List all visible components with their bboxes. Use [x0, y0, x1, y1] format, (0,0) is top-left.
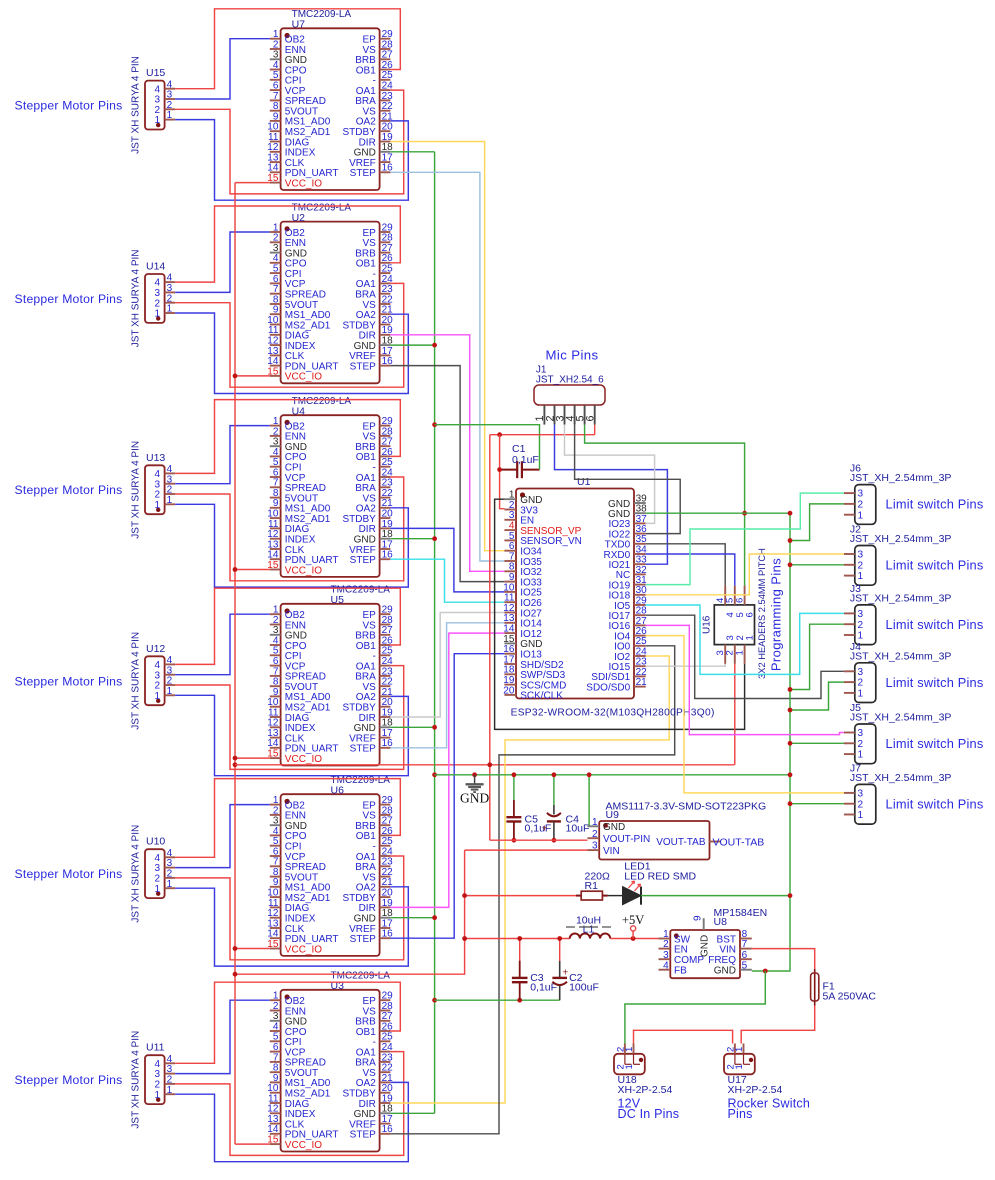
U5 pin 3 GND	[270, 634, 281, 636]
junction GND rail	[432, 772, 437, 777]
U1 pin 8 IO32	[504, 570, 516, 572]
svg-text:5A 250VAC: 5A 250VAC	[823, 991, 877, 1003]
junction green bus / rail	[788, 772, 793, 777]
svg-text:JST XH SURYA 4 PIN: JST XH SURYA 4 PIN	[131, 825, 142, 923]
svg-text:Limit switch Pins: Limit switch Pins	[886, 558, 984, 573]
U16 pin 4	[724, 586, 726, 605]
U5 pin 14 PDN_UART	[270, 747, 281, 749]
U2 pin 5 CPI	[270, 272, 281, 274]
J4 pin 1	[844, 692, 855, 694]
junction 3V3 rail tap	[233, 762, 238, 767]
junction VCC_IO U5	[233, 756, 238, 761]
U3 pin 22 VS	[380, 1071, 391, 1073]
U4 pin 17 VREF	[380, 548, 391, 550]
U5 pin 2 ENN	[270, 624, 281, 626]
wire U4 motor OB2 (blue)	[175, 426, 270, 484]
U3 pin 1 OB2	[270, 999, 281, 1001]
junction R1 +5V	[462, 893, 467, 898]
U3 pin 18 GND	[380, 1112, 391, 1114]
U13 pin 2	[165, 493, 176, 495]
U8 pin 9 GND top	[703, 918, 705, 930]
U4 pin 28 VS	[380, 435, 391, 437]
junction 5V rail	[462, 936, 467, 941]
U7 pin 9 MS1_AD0	[270, 120, 281, 122]
U8 pin 3 COMP	[659, 958, 671, 960]
junction J2 GND	[788, 562, 793, 567]
3V3 red bus left	[234, 183, 236, 1145]
wire U4 DIR to ESP32 IO (pin 10)	[390, 528, 504, 592]
driver IC U5 TMC2209-LA	[281, 604, 380, 766]
U1 pin 16 IO13	[504, 653, 516, 655]
junction C5 top	[512, 772, 517, 777]
wire IO18 to J2 pin3 (yellow)	[646, 554, 844, 595]
U11 pin 4	[165, 1062, 176, 1064]
U7 pin 19 DIR	[380, 141, 391, 143]
U7 pin 26 OB1	[380, 69, 391, 71]
wire J4 pin2 to GND bus (green)	[790, 682, 844, 710]
U6 pin 2 ENN	[270, 814, 281, 816]
svg-text:3: 3	[663, 950, 669, 961]
svg-text:JST_XH_2.54mm_3P: JST_XH_2.54mm_3P	[850, 650, 952, 662]
U4 pin 14 PDN_UART	[270, 558, 281, 560]
U6 pin 23 BRA	[380, 865, 391, 867]
U1 pin 21 SDO/SD0	[634, 686, 646, 688]
junction GND U4	[432, 536, 437, 541]
U3 pin 24 OA1	[380, 1051, 391, 1053]
U15 pin 2	[165, 108, 176, 110]
U1 pin 6 IO34	[504, 550, 516, 552]
svg-text:STEP: STEP	[350, 555, 376, 566]
U6 pin 16 STEP	[380, 937, 391, 939]
svg-text:STEP: STEP	[350, 744, 376, 755]
svg-text:XH-2P-2.54: XH-2P-2.54	[728, 1084, 783, 1096]
wire J1 pin3 to IO23 (light gray)	[565, 425, 655, 524]
svg-text:VCC_IO: VCC_IO	[285, 372, 322, 383]
U7 pin 1 OB2	[270, 38, 281, 40]
svg-text:JST_XH_2.54mm_3P: JST_XH_2.54mm_3P	[850, 772, 952, 784]
svg-text:6: 6	[745, 612, 756, 617]
driver IC U7 TMC2209-LA	[281, 28, 380, 190]
U6 pin 29 EP	[380, 804, 391, 806]
J1 pin 2	[554, 405, 556, 425]
wire U2 GND to bus (green)	[390, 344, 434, 346]
U4 pin 22 VS	[380, 497, 391, 499]
wire 5V to VCC_IO bus (red)	[235, 939, 465, 975]
junction U9 GND	[587, 772, 592, 777]
svg-text:JST_XH_2.54mm_3P: JST_XH_2.54mm_3P	[850, 472, 952, 484]
U3 pin 23 BRA	[380, 1061, 391, 1063]
svg-text:GND: GND	[460, 791, 489, 806]
junction C4 bottom	[552, 838, 557, 843]
U6 pin 28 VS	[380, 814, 391, 816]
svg-text:1: 1	[167, 304, 173, 315]
svg-text:1: 1	[155, 115, 161, 126]
U3 pin 28 VS	[380, 1010, 391, 1012]
svg-text:JST XH SURYA 4 PIN: JST XH SURYA 4 PIN	[131, 249, 142, 347]
junction GND C1 branch	[432, 422, 437, 427]
U2 pin 16 STEP	[380, 365, 391, 367]
capacitor C1 0,1uF	[500, 469, 518, 471]
svg-text:XH-2P-2.54: XH-2P-2.54	[618, 1084, 673, 1096]
U3 pin 27 BRB	[380, 1020, 391, 1022]
U7 pin 20 STDBY	[380, 130, 391, 132]
svg-text:100uF: 100uF	[569, 982, 599, 994]
connector U10 JST XH SURYA 4 PIN	[145, 849, 165, 898]
U4 pin 10 MS2_AD1	[270, 517, 281, 519]
connector U15 JST XH SURYA 4 PIN	[145, 81, 165, 130]
wire R1 to LED1 (black)	[608, 895, 623, 897]
wire U6 motor OB1 (red)	[175, 779, 400, 858]
svg-text:2: 2	[858, 620, 864, 631]
U7 pin 25 -	[380, 79, 391, 81]
wire +5V rail (red)	[465, 938, 570, 940]
U2 pin 17 VREF	[380, 354, 391, 356]
junction GND U2	[432, 343, 437, 348]
wire U3 motor OA2 (blue)	[175, 1082, 408, 1161]
U1 pin 24 IO2	[634, 655, 646, 657]
U4 pin 7 SPREAD	[270, 486, 281, 488]
svg-text:JST XH SURYA 4 PIN: JST XH SURYA 4 PIN	[131, 56, 142, 154]
U6 pin 25 -	[380, 845, 391, 847]
wire U4 motor OA1 (red)	[175, 477, 404, 581]
svg-text:U15: U15	[146, 67, 165, 79]
svg-text:1: 1	[167, 1085, 173, 1096]
svg-text:DC In Pins: DC In Pins	[618, 1107, 680, 1121]
U7 pin 5 CPI	[270, 79, 281, 81]
wire U8 VIN from fuse (red)	[752, 949, 815, 973]
svg-text:2: 2	[858, 560, 864, 571]
svg-text:+5V: +5V	[622, 913, 644, 927]
U7 pin 13 CLK	[270, 161, 281, 163]
U1 pin 35 TXD0	[634, 543, 646, 545]
J7 pin 2	[844, 803, 855, 805]
U12 pin 3	[165, 674, 176, 676]
svg-text:U7: U7	[292, 19, 306, 31]
junction 3V3 branch	[497, 432, 502, 437]
U2 pin 22 VS	[380, 303, 391, 305]
wire C2/C3 ground to GND bus (green)	[435, 999, 560, 1001]
svg-text:2: 2	[858, 799, 864, 810]
svg-text:+: +	[562, 967, 568, 979]
svg-text:STEP: STEP	[350, 934, 376, 945]
U6 pin 3 GND	[270, 824, 281, 826]
U7 pin 10 MS2_AD1	[270, 130, 281, 132]
svg-text:VOUT-TAB: VOUT-TAB	[656, 837, 706, 848]
U5 pin 19 DIR	[380, 716, 391, 718]
svg-text:0,1uF: 0,1uF	[512, 454, 539, 466]
U1 pin 32 NC	[634, 573, 646, 575]
U1 pin 28 IO17	[634, 614, 646, 616]
U3 pin 17 VREF	[380, 1123, 391, 1125]
svg-text:3: 3	[858, 789, 864, 800]
svg-text:U13: U13	[146, 452, 165, 464]
U7 pin 16 STEP	[380, 171, 391, 173]
U5 pin 6 VCP	[270, 665, 281, 667]
wire LED1 to GND bus (green)	[641, 895, 790, 897]
svg-text:JST_XH_2.54mm_3P: JST_XH_2.54mm_3P	[850, 592, 952, 604]
J3 pin 2	[844, 623, 855, 625]
U5 pin 8 5VOUT	[270, 685, 281, 687]
svg-text:Limit switch Pins: Limit switch Pins	[886, 736, 984, 751]
svg-text:1: 1	[155, 500, 161, 511]
svg-text:U5: U5	[331, 594, 345, 606]
wire U7 motor OB2 (blue)	[175, 39, 270, 99]
U1 pin 18 SWP/SD3	[504, 673, 516, 675]
U6 pin 18 GND	[380, 917, 391, 919]
svg-text:1: 1	[858, 510, 864, 521]
junction green bus top	[788, 511, 793, 516]
svg-text:Stepper Motor Pins: Stepper Motor Pins	[15, 674, 123, 688]
U6 pin 12 INDEX	[270, 917, 281, 919]
svg-text:FREQ: FREQ	[708, 955, 736, 966]
junction VCC_IO U2	[233, 374, 238, 379]
U1 pin 9 IO33	[504, 581, 516, 583]
svg-text:1: 1	[167, 110, 173, 121]
U2 pin 26 OB1	[380, 262, 391, 264]
U5 pin 26 OB1	[380, 644, 391, 646]
connector U17 XH-2P-2.54	[724, 1054, 755, 1075]
wire RXD0 to U16 pin5 (blue)	[646, 554, 735, 586]
connector U13 JST XH SURYA 4 PIN	[145, 465, 165, 514]
junction C5 bottom	[512, 838, 517, 843]
svg-text:1: 1	[155, 309, 161, 320]
svg-text:5: 5	[742, 960, 748, 971]
svg-text:1: 1	[734, 1064, 745, 1069]
U15 pin 1	[165, 119, 176, 121]
U2 pin 14 PDN_UART	[270, 365, 281, 367]
wire U3 motor OA1 (red)	[175, 1052, 404, 1156]
svg-text:1: 1	[745, 635, 756, 640]
U7 pin 18 GND	[380, 151, 391, 153]
U6 pin 21 OA2	[380, 886, 391, 888]
U2 pin 9 MS1_AD0	[270, 313, 281, 315]
U1 pin 31 IO19	[634, 584, 646, 586]
connector J1 JST_XH2.54_6 mic pins	[534, 385, 605, 405]
U1 pin 10 IO25	[504, 591, 516, 593]
svg-text:10uF: 10uF	[566, 823, 590, 835]
connector J4 JST_XH_2.54mm_3P limit switch	[855, 663, 876, 703]
U6 pin 6 VCP	[270, 855, 281, 857]
svg-text:SDO/SD0: SDO/SD0	[586, 682, 630, 693]
svg-text:3: 3	[858, 609, 864, 620]
U2 pin 19 DIR	[380, 334, 391, 336]
svg-text:Stepper Motor Pins: Stepper Motor Pins	[15, 99, 123, 113]
wire U4 STEP to ESP32 IO (pin 11)	[390, 559, 504, 602]
U6 pin 8 5VOUT	[270, 876, 281, 878]
U3 pin 25 -	[380, 1040, 391, 1042]
J1 pin 4	[574, 405, 576, 425]
svg-text:U16: U16	[702, 615, 713, 634]
svg-text:9: 9	[693, 915, 704, 921]
J4 pin 3	[844, 670, 855, 672]
svg-text:Limit switch Pins: Limit switch Pins	[886, 617, 984, 632]
wire U2 motor OA2 (blue)	[175, 313, 408, 394]
U7 pin 27 BRB	[380, 58, 391, 60]
wire U4 GND to bus (green)	[390, 538, 434, 540]
junction 3V3 rail	[487, 762, 492, 767]
U8 pin 2 EN	[659, 948, 671, 950]
svg-text:VCC_IO: VCC_IO	[285, 1140, 322, 1151]
U3 pin 20 STDBY	[380, 1092, 391, 1094]
svg-text:2: 2	[663, 939, 669, 950]
wire U5 motor OB2 (blue)	[175, 614, 270, 675]
connector J2 JST_XH_2.54mm_3P limit switch	[855, 546, 876, 586]
junction GND capacitors branch	[432, 998, 437, 1003]
U5 pin 13 CLK	[270, 737, 281, 739]
wire U3 motor OB1 (red)	[175, 982, 400, 1063]
U5 pin 24 OA1	[380, 665, 391, 667]
U4 pin 8 5VOUT	[270, 497, 281, 499]
svg-text:U12: U12	[146, 643, 165, 655]
U2 pin 20 STDBY	[380, 324, 391, 326]
U2 pin 7 SPREAD	[270, 293, 281, 295]
U5 pin 5 CPI	[270, 654, 281, 656]
svg-text:JST_XH_2.54mm_3P: JST_XH_2.54mm_3P	[850, 712, 952, 724]
U6 pin 20 STDBY	[380, 896, 391, 898]
svg-text:U4: U4	[292, 406, 306, 418]
U5 pin 9 MS1_AD0	[270, 695, 281, 697]
wire U4 VCC_IO to 3V3 bus (red)	[235, 569, 270, 571]
U2 pin 10 MS2_AD1	[270, 324, 281, 326]
U5 pin 23 BRA	[380, 675, 391, 677]
U7 pin 12 INDEX	[270, 151, 281, 153]
wire U6 GND to bus (green)	[390, 917, 434, 919]
U8 pin 5 GND	[740, 969, 752, 971]
svg-text:U11: U11	[146, 1042, 165, 1054]
U5 pin 17 VREF	[380, 737, 391, 739]
U18 pin 1	[633, 1044, 635, 1054]
svg-text:JST XH SURYA 4 PIN: JST XH SURYA 4 PIN	[131, 441, 142, 539]
wire U6 STEP to ESP32 IO (pin 16)	[390, 654, 504, 939]
U4 pin 6 VCP	[270, 476, 281, 478]
wire U5 motor OB1 (red)	[175, 588, 400, 664]
U3 pin 14 PDN_UART	[270, 1133, 281, 1135]
U1 pin 38 GND	[634, 512, 646, 514]
U3 pin 4 CPO	[270, 1030, 281, 1032]
svg-text:4: 4	[663, 960, 669, 971]
U1 pin 5 SENSOR_VN	[504, 539, 516, 541]
U2 pin 6 VCP	[270, 282, 281, 284]
svg-text:Limit switch Pins: Limit switch Pins	[886, 796, 984, 811]
U1 pin 12 IO27	[504, 612, 516, 614]
wire U4 motor OB1 (red)	[175, 400, 400, 474]
junction VCC_IO U6	[233, 946, 238, 951]
svg-text:EN: EN	[674, 944, 688, 955]
U11 pin 1	[165, 1093, 176, 1095]
svg-text:Limit switch Pins: Limit switch Pins	[886, 675, 984, 690]
junction green U8 GND	[763, 969, 768, 974]
svg-text:U14: U14	[146, 261, 165, 273]
svg-text:U10: U10	[146, 836, 165, 848]
J1 pin 1	[543, 405, 545, 425]
junction J7 GND	[788, 801, 793, 806]
junction C3 ground	[517, 998, 522, 1003]
U1 pin 26 IO4	[634, 635, 646, 637]
U4 pin 12 INDEX	[270, 538, 281, 540]
U6 pin 1 OB2	[270, 804, 281, 806]
capacitor C5 0,1uF	[513, 775, 515, 800]
U4 pin 24 OA1	[380, 476, 391, 478]
J3 pin 1	[844, 634, 855, 636]
J4 pin 2	[844, 681, 855, 683]
J5 pin 1	[844, 753, 855, 755]
svg-text:1: 1	[155, 884, 161, 895]
U1 pin 14 IO12	[504, 632, 516, 634]
U6 pin 5 CPI	[270, 845, 281, 847]
svg-text:Stepper Motor Pins: Stepper Motor Pins	[15, 867, 123, 881]
svg-text:21: 21	[636, 677, 648, 688]
svg-text:1: 1	[858, 571, 864, 582]
U3 pin 3 GND	[270, 1020, 281, 1022]
svg-text:VOUT-PIN: VOUT-PIN	[603, 834, 650, 845]
U5 pin 25 -	[380, 654, 391, 656]
U7 pin 11 DIAG	[270, 141, 281, 143]
svg-text:Limit switch Pins: Limit switch Pins	[886, 497, 984, 512]
J2 pin 2	[844, 564, 855, 566]
wire 3V3 trunk (red)	[489, 435, 491, 841]
U7 pin 7 SPREAD	[270, 99, 281, 101]
svg-text:3: 3	[858, 489, 864, 500]
wire U7 motor OA2 (blue)	[175, 120, 408, 201]
svg-text:JST XH SURYA 4 PIN: JST XH SURYA 4 PIN	[131, 632, 142, 730]
U2 pin 8 5VOUT	[270, 303, 281, 305]
junction C1	[497, 467, 502, 472]
U2 pin 28 VS	[380, 241, 391, 243]
U3 pin 6 VCP	[270, 1051, 281, 1053]
U8 pin 4 FB	[659, 969, 671, 971]
svg-text:JST_XH_2.54mm_3P: JST_XH_2.54mm_3P	[850, 533, 952, 545]
junction C2 top	[557, 936, 562, 941]
J1 pin 5	[584, 405, 586, 425]
U1 pin 4 SENSOR_VP	[504, 529, 516, 531]
wire J5 pin2 to GND bus (green)	[790, 742, 844, 744]
U4 pin 26 OB1	[380, 455, 391, 457]
wire IO19 to J6 pin3 (mint green)	[646, 493, 844, 584]
U15 pin 3	[165, 98, 176, 100]
U5 pin 1 OB2	[270, 613, 281, 615]
wire U9 GND to rail (green)	[589, 775, 599, 827]
svg-text:1: 1	[624, 1064, 635, 1069]
svg-text:STEP: STEP	[350, 168, 376, 179]
svg-text:GND: GND	[700, 935, 711, 957]
U1 pin 25 IO0	[634, 645, 646, 647]
J6 pin 1	[844, 514, 855, 516]
wire U2 STEP to ESP32 IO (pin 9)	[390, 366, 504, 582]
U14 pin 2	[165, 302, 176, 304]
wire J7 pin2 to GND bus (green)	[790, 803, 844, 805]
svg-text:1: 1	[858, 810, 864, 821]
wire U5 motor OA2 (blue)	[175, 695, 408, 775]
wire U2 DIR to ESP32 IO (pin 8)	[390, 335, 504, 572]
U5 pin 11 DIAG	[270, 716, 281, 718]
svg-text:R1: R1	[585, 880, 599, 892]
wire U2 VCC_IO to 3V3 bus (red)	[235, 375, 270, 377]
svg-text:VCC_IO: VCC_IO	[285, 565, 322, 576]
U4 pin 4 CPO	[270, 455, 281, 457]
svg-text:1: 1	[858, 689, 864, 700]
U4 pin 16 STEP	[380, 558, 391, 560]
svg-text:2: 2	[592, 829, 598, 840]
U2 pin 4 CPO	[270, 262, 281, 264]
connector U14 JST XH SURYA 4 PIN	[145, 274, 165, 323]
wire U3 STEP to ESP32 IO0 (dark gray)	[390, 646, 674, 1134]
svg-text:VIN: VIN	[603, 846, 620, 857]
junction C3 top	[517, 936, 522, 941]
U12 pin 4	[165, 663, 176, 665]
U1 pin 30 IO18	[634, 594, 646, 596]
wire J6 pin2 to GND bus (green)	[790, 504, 844, 541]
U10 pin 4	[165, 856, 176, 858]
